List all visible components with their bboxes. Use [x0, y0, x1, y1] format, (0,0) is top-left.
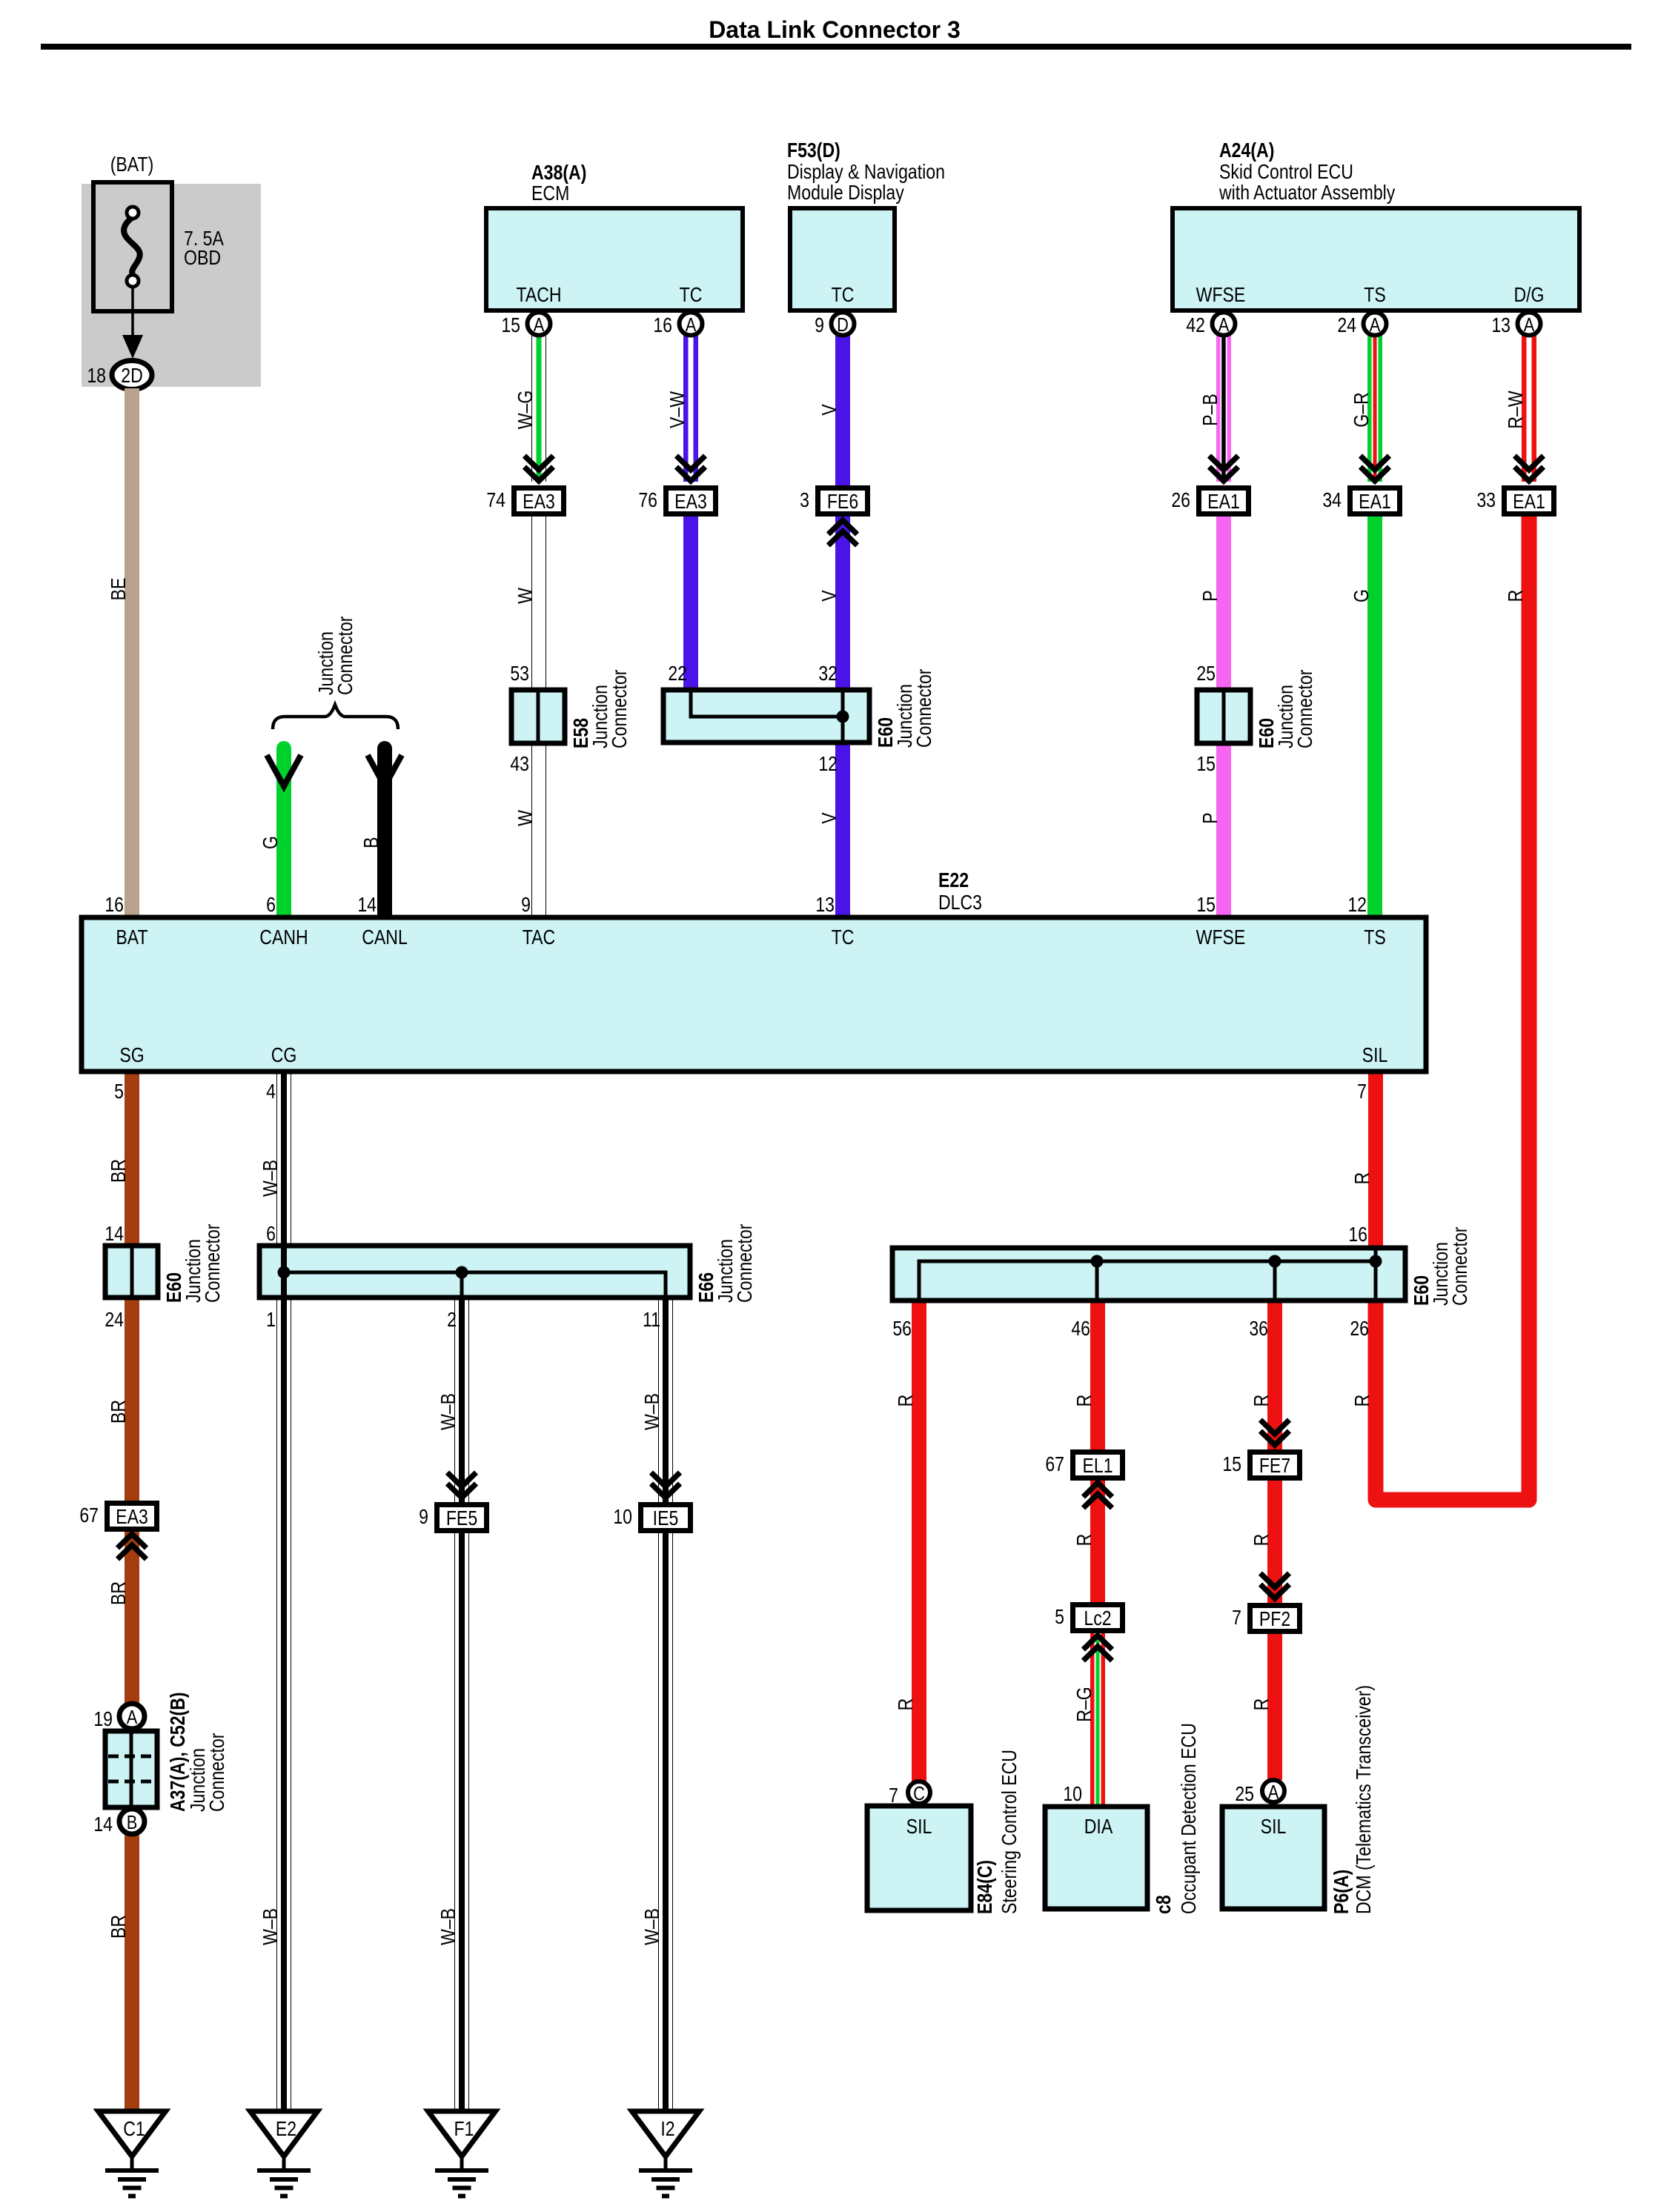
svg-text:BE: BE [107, 578, 130, 601]
svg-text:W–B: W–B [641, 1393, 663, 1430]
svg-text:13: 13 [815, 894, 835, 916]
svg-text:TACH: TACH [516, 284, 561, 306]
svg-text:R: R [895, 1698, 917, 1711]
svg-text:9: 9 [815, 314, 824, 336]
svg-text:CG: CG [271, 1044, 297, 1066]
svg-text:OBD: OBD [184, 247, 221, 269]
svg-text:56: 56 [892, 1318, 912, 1340]
svg-text:B: B [360, 837, 382, 848]
svg-text:15: 15 [1196, 753, 1216, 775]
svg-text:6: 6 [266, 1223, 276, 1245]
svg-text:EA1: EA1 [1207, 491, 1240, 513]
svg-text:PF2: PF2 [1259, 1608, 1290, 1630]
svg-text:76: 76 [638, 489, 657, 511]
svg-text:26: 26 [1350, 1318, 1369, 1340]
svg-text:16: 16 [105, 894, 124, 916]
svg-text:I2: I2 [660, 2118, 674, 2140]
svg-text:W–B: W–B [641, 1908, 663, 1945]
svg-text:E84(C): E84(C) [974, 1860, 996, 1914]
svg-text:25: 25 [1196, 662, 1216, 685]
svg-text:9: 9 [419, 1506, 428, 1528]
svg-text:2D: 2D [121, 365, 143, 387]
svg-text:4: 4 [266, 1080, 276, 1103]
svg-text:5: 5 [114, 1080, 124, 1103]
svg-text:V: V [818, 812, 840, 823]
svg-text:Occupant Detection ECU: Occupant Detection ECU [1178, 1723, 1200, 1914]
svg-text:(BAT): (BAT) [110, 153, 154, 176]
svg-text:IE5: IE5 [653, 1507, 679, 1530]
svg-text:ECM: ECM [531, 182, 569, 205]
svg-text:SIL: SIL [906, 1816, 932, 1838]
svg-text:V: V [818, 404, 840, 415]
svg-text:2: 2 [447, 1309, 457, 1331]
svg-text:R: R [1250, 1534, 1273, 1547]
svg-text:6: 6 [266, 894, 276, 916]
svg-text:TC: TC [832, 284, 855, 306]
svg-text:C1: C1 [123, 2118, 145, 2140]
svg-text:22: 22 [668, 662, 687, 685]
svg-text:16: 16 [1348, 1223, 1367, 1246]
svg-text:34: 34 [1322, 489, 1342, 511]
svg-text:A: A [1370, 314, 1381, 336]
svg-text:CANH: CANH [259, 926, 308, 949]
svg-text:W–B: W–B [437, 1908, 460, 1945]
svg-text:18: 18 [87, 365, 106, 387]
svg-text:R: R [1505, 590, 1527, 602]
svg-text:42: 42 [1186, 314, 1205, 336]
svg-text:67: 67 [79, 1504, 99, 1527]
svg-text:EA3: EA3 [116, 1506, 148, 1528]
svg-text:A: A [1218, 314, 1230, 336]
svg-text:P: P [1199, 812, 1221, 823]
svg-text:CANL: CANL [362, 926, 408, 949]
svg-text:A: A [534, 314, 545, 336]
svg-text:SIL: SIL [1261, 1816, 1287, 1838]
svg-text:with Actuator Assembly: with Actuator Assembly [1218, 182, 1396, 204]
svg-text:C: C [913, 1783, 925, 1804]
svg-text:1: 1 [266, 1309, 276, 1331]
svg-text:R: R [895, 1395, 917, 1407]
svg-text:W–G: W–G [514, 391, 537, 430]
svg-text:R: R [1351, 1172, 1373, 1185]
svg-text:A24(A): A24(A) [1219, 139, 1274, 162]
svg-text:BR: BR [107, 1400, 130, 1424]
svg-text:A37(A), C52(B): A37(A), C52(B) [167, 1692, 189, 1812]
svg-text:P: P [1199, 590, 1221, 601]
svg-text:W–B: W–B [259, 1908, 282, 1945]
svg-text:R: R [1351, 1395, 1373, 1407]
svg-text:F53(D): F53(D) [787, 139, 840, 162]
svg-text:V: V [818, 590, 840, 601]
svg-text:TS: TS [1364, 926, 1386, 949]
svg-text:P6(A): P6(A) [1330, 1870, 1353, 1914]
svg-text:W–B: W–B [259, 1160, 282, 1197]
svg-text:DIA: DIA [1084, 1816, 1113, 1838]
svg-text:Lc2: Lc2 [1084, 1607, 1111, 1630]
svg-text:BR: BR [107, 1915, 130, 1939]
svg-text:V–W: V–W [666, 391, 689, 428]
svg-text:DLC3: DLC3 [938, 891, 982, 914]
svg-text:12: 12 [1347, 894, 1367, 916]
svg-text:EL1: EL1 [1082, 1455, 1112, 1477]
svg-text:A: A [1524, 314, 1535, 336]
svg-text:Connector: Connector [1449, 1226, 1471, 1306]
svg-text:Connector: Connector [202, 1223, 224, 1303]
svg-text:Connector: Connector [206, 1733, 228, 1812]
svg-text:R: R [1073, 1395, 1095, 1407]
svg-text:14: 14 [93, 1813, 113, 1836]
svg-text:G–R: G–R [1350, 392, 1373, 427]
svg-text:Connector: Connector [913, 668, 935, 748]
svg-text:3: 3 [800, 489, 809, 511]
svg-text:TC: TC [832, 926, 855, 949]
svg-text:F1: F1 [454, 2118, 474, 2140]
svg-text:Display & Navigation: Display & Navigation [787, 161, 945, 183]
svg-text:D: D [837, 314, 849, 336]
svg-text:R: R [1073, 1534, 1095, 1547]
svg-text:EA3: EA3 [674, 491, 707, 513]
svg-text:15: 15 [501, 314, 520, 336]
svg-text:FE5: FE5 [446, 1507, 477, 1530]
svg-text:BR: BR [107, 1159, 130, 1183]
svg-text:25: 25 [1235, 1783, 1254, 1805]
svg-text:53: 53 [510, 662, 529, 685]
svg-text:Connector: Connector [609, 669, 631, 748]
svg-text:A: A [1268, 1781, 1279, 1803]
svg-text:W–B: W–B [437, 1393, 460, 1430]
svg-text:36: 36 [1249, 1318, 1268, 1340]
svg-text:BR: BR [107, 1581, 130, 1605]
svg-text:E2: E2 [276, 2118, 296, 2140]
svg-text:7: 7 [889, 1784, 898, 1807]
svg-text:Connector: Connector [734, 1223, 756, 1303]
svg-text:TAC: TAC [523, 926, 555, 949]
svg-text:Module Display: Module Display [787, 182, 904, 204]
svg-text:74: 74 [486, 489, 505, 511]
svg-text:B: B [127, 1812, 138, 1833]
svg-text:9: 9 [521, 894, 531, 916]
svg-text:D/G: D/G [1513, 284, 1544, 306]
svg-text:E22: E22 [938, 869, 969, 891]
svg-text:11: 11 [643, 1309, 660, 1331]
svg-text:R–W: R–W [1505, 391, 1527, 428]
svg-text:5: 5 [1055, 1606, 1064, 1628]
svg-text:24: 24 [105, 1309, 124, 1331]
svg-text:32: 32 [818, 662, 838, 685]
svg-text:14: 14 [105, 1223, 124, 1245]
svg-text:43: 43 [510, 753, 529, 775]
svg-text:Connector: Connector [1294, 669, 1316, 748]
svg-text:WFSE: WFSE [1196, 284, 1246, 306]
svg-text:7: 7 [1357, 1080, 1367, 1103]
svg-text:EA1: EA1 [1513, 491, 1545, 513]
svg-text:c8: c8 [1153, 1895, 1175, 1914]
svg-text:10: 10 [613, 1506, 632, 1528]
svg-text:R: R [1250, 1698, 1273, 1711]
svg-text:Connector: Connector [334, 616, 357, 695]
svg-text:EA3: EA3 [523, 491, 555, 513]
svg-text:WFSE: WFSE [1196, 926, 1246, 949]
svg-text:G: G [1350, 589, 1373, 602]
svg-text:14: 14 [357, 894, 377, 916]
svg-text:R–G: R–G [1073, 1687, 1095, 1721]
svg-text:12: 12 [818, 753, 838, 775]
svg-text:A: A [127, 1707, 138, 1728]
svg-text:EA1: EA1 [1359, 491, 1391, 513]
svg-text:Skid Control ECU: Skid Control ECU [1219, 161, 1353, 183]
svg-text:DCM (Telematics Transceiver): DCM (Telematics Transceiver) [1353, 1685, 1375, 1914]
svg-text:P–B: P–B [1199, 393, 1221, 426]
svg-text:SG: SG [119, 1044, 144, 1066]
svg-text:A: A [686, 314, 697, 336]
svg-text:7: 7 [1232, 1607, 1241, 1629]
svg-text:FE7: FE7 [1259, 1455, 1290, 1477]
svg-text:33: 33 [1476, 489, 1496, 511]
svg-text:A38(A): A38(A) [531, 162, 586, 184]
svg-text:SIL: SIL [1362, 1044, 1388, 1066]
svg-text:Data Link Connector 3: Data Link Connector 3 [709, 16, 961, 43]
svg-text:15: 15 [1196, 894, 1216, 916]
svg-text:W: W [514, 588, 537, 604]
svg-text:16: 16 [653, 314, 672, 336]
svg-text:15: 15 [1222, 1453, 1241, 1475]
svg-text:BAT: BAT [116, 926, 147, 949]
svg-text:TC: TC [680, 284, 703, 306]
svg-text:26: 26 [1171, 489, 1190, 511]
svg-text:Steering Control ECU: Steering Control ECU [998, 1750, 1021, 1914]
svg-text:TS: TS [1364, 284, 1386, 306]
svg-text:46: 46 [1071, 1318, 1090, 1340]
svg-text:FE6: FE6 [827, 491, 858, 513]
svg-text:24: 24 [1337, 314, 1356, 336]
svg-text:19: 19 [93, 1708, 113, 1730]
svg-text:G: G [259, 836, 282, 849]
svg-text:R: R [1250, 1395, 1273, 1407]
svg-text:W: W [514, 810, 537, 826]
svg-text:10: 10 [1063, 1783, 1082, 1805]
svg-text:67: 67 [1045, 1453, 1064, 1475]
svg-text:13: 13 [1491, 314, 1511, 336]
